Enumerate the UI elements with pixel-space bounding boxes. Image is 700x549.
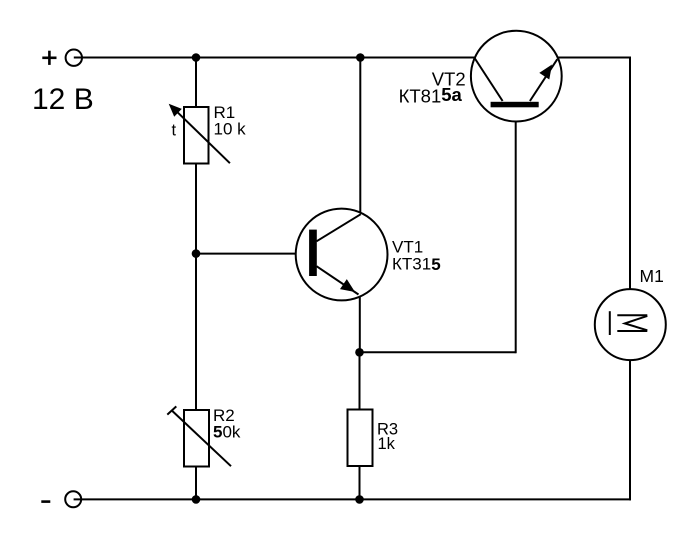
svg-text:12 В: 12 В xyxy=(32,83,94,116)
transistor VT2 emitter stroke with arrow xyxy=(530,59,557,101)
transistor VT2 circle xyxy=(471,31,562,122)
svg-text:КТ315: КТ315 xyxy=(392,254,441,274)
junction dot: top rail / R1 xyxy=(192,53,201,62)
svg-text:t: t xyxy=(172,122,177,140)
transistor VT1 circle xyxy=(296,209,388,301)
transistor VT2 base bar xyxy=(491,102,539,108)
wire: base junction to R2 xyxy=(195,254,197,411)
transistor VT1 collector stroke xyxy=(317,214,361,241)
terminal circle + xyxy=(66,50,82,66)
wire: VT1 emitter down to junction xyxy=(359,295,361,352)
svg-text:10 k: 10 k xyxy=(214,120,247,139)
resistor R1 diagonal arrow xyxy=(169,104,230,164)
wire: VT1 base xyxy=(196,253,310,255)
motor M1 circle xyxy=(595,289,666,360)
wire: VT1 collector to top rail xyxy=(359,58,361,215)
motor M1 rotated M symbol xyxy=(610,311,648,335)
wire: R2 to bottom rail xyxy=(195,466,197,500)
wire: R3 to bottom rail xyxy=(359,465,361,499)
wire: left vertical, top rail to R1 xyxy=(195,58,197,109)
junction dot: R1-R2 divider / VT1 base xyxy=(192,249,201,258)
junction dot: VT1 emitter / R3 / VT2 base xyxy=(355,348,364,357)
wire: M1 to bottom rail xyxy=(629,360,631,501)
junction dot: top rail / VT1 collector xyxy=(356,53,365,62)
wire: VT2 base vertical xyxy=(515,107,517,353)
wire: top rail from + to VT2 collector xyxy=(74,57,475,59)
junction dot: bottom rail / R2 xyxy=(192,495,201,504)
terminal circle - xyxy=(65,491,81,507)
svg-text:50k: 50k xyxy=(213,423,241,442)
transistor VT1 emitter stroke with arrow xyxy=(317,266,359,294)
resistor R2 diagonal with tap bar xyxy=(167,406,231,466)
transistor VT1 base bar xyxy=(309,230,317,276)
svg-text:M1: M1 xyxy=(640,266,664,286)
wire: R1 to base junction xyxy=(195,163,197,254)
junction dot: bottom rail / R3 xyxy=(355,495,364,504)
resistor R2 (variable) body xyxy=(184,410,209,467)
transistor VT2 collector stroke xyxy=(475,59,503,102)
wire: junction down to R3 xyxy=(359,352,361,410)
wire: emitter junction to VT2 base (horizontal) xyxy=(360,351,516,353)
wire: bottom rail xyxy=(74,498,631,500)
resistor R3 body xyxy=(348,410,373,467)
minus sign xyxy=(41,500,50,503)
resistor R1 (thermistor) body xyxy=(184,107,209,164)
wire: VT2 emitter to right rail and down to M1 xyxy=(558,58,630,291)
svg-text:КТ815a: КТ815a xyxy=(399,84,463,106)
svg-text:1k: 1k xyxy=(378,435,396,453)
plus sign xyxy=(42,51,56,65)
